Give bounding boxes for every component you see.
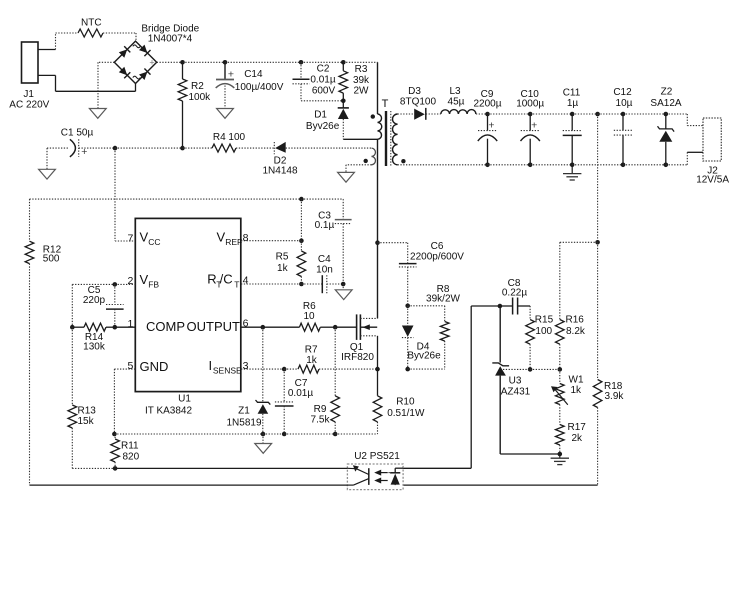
junction [113,466,118,471]
svg-text:R9: R9 [314,404,327,415]
pin 6 [243,318,249,330]
svg-text:AZ431: AZ431 [501,387,531,398]
ground [217,109,234,119]
wire [503,368,530,370]
svg-text:R11: R11 [121,440,139,451]
connector J2 [696,118,729,186]
junction [299,60,304,65]
wire [71,327,73,405]
svg-text:2k: 2k [572,433,584,444]
transformer T primary winding [378,98,389,139]
wire [488,113,531,115]
wire [403,467,471,469]
transformer auxiliary winding [372,148,376,165]
resistor R7 1k [284,345,377,374]
junction [485,163,490,168]
wire [559,405,561,425]
capacitor C10 1000u [516,89,544,165]
junction [223,60,228,65]
wire [597,114,599,242]
schottky diode Z1 1N5819 [226,400,270,434]
ground [89,109,106,119]
svg-text:0.01µ: 0.01µ [310,75,335,86]
pin label COMP [146,319,185,334]
resistor R15 100 [526,315,554,345]
pin 4 [243,275,249,287]
pin 5 [128,360,134,372]
inductor L3 45u [441,86,476,114]
svg-text:SA12A: SA12A [650,98,681,109]
wire [598,113,623,115]
svg-text:D1: D1 [314,110,327,121]
diode D2 1N4148 [262,142,297,177]
ground [255,434,272,453]
svg-text:5: 5 [128,360,134,372]
svg-text:U2 PS521: U2 PS521 [354,451,400,462]
wire [113,369,115,434]
capacitor C2 0.01u 600V [293,62,336,101]
junction [112,432,117,437]
svg-text:39k/2W: 39k/2W [426,294,460,305]
wire [335,433,377,435]
wire [71,284,73,327]
diode D4 Byv26e [402,306,441,369]
wire [403,484,597,486]
junction [621,163,626,168]
svg-text:8.2k: 8.2k [566,326,586,337]
wire pin5 stub [114,368,135,370]
svg-text:1k: 1k [277,263,289,274]
wire [115,147,183,149]
svg-text:2200µ: 2200µ [473,98,501,109]
svg-text:R2: R2 [191,81,204,92]
junction [113,282,118,287]
resistor R3 39k 2W [339,62,370,101]
svg-text:R13: R13 [78,405,97,416]
wire [530,164,572,166]
svg-text:IT KA3842: IT KA3842 [145,406,193,417]
wire pin7 stub [115,240,135,242]
wire [56,32,79,34]
svg-text:GND: GND [140,359,169,374]
wire [687,151,703,153]
junction [180,60,185,65]
wire [687,125,703,127]
svg-text:COMP: COMP [146,319,185,334]
resistor R5 1k [276,241,306,284]
svg-text:2W: 2W [354,86,370,97]
junction [528,163,533,168]
svg-text:T: T [234,279,239,289]
wire [376,317,378,319]
junction [595,112,600,117]
ground [338,172,355,182]
wire gate [335,326,356,328]
IC U1 IT KA3842 [135,218,241,416]
wire [114,433,263,435]
svg-text:1k: 1k [306,355,318,366]
svg-text:NTC: NTC [81,18,102,29]
wire [378,242,408,244]
pin label RT/CT [207,272,239,290]
junction [595,240,600,245]
wire [398,164,488,166]
wire [327,283,343,285]
junction [113,325,118,330]
resistor R10 0.51/1W [373,369,425,434]
svg-text:0.22µ: 0.22µ [502,288,527,299]
polarity dot [401,159,405,163]
svg-text:8: 8 [243,232,249,244]
resistor R9 7.5k [311,396,340,434]
svg-text:+: + [488,120,494,132]
svg-text:1: 1 [128,318,134,330]
svg-text:1k: 1k [571,385,583,396]
svg-text:Byv26e: Byv26e [306,121,340,132]
svg-text:AC 220V: AC 220V [9,100,49,111]
wire source [377,336,379,369]
svg-text:3: 3 [243,360,249,372]
pin label VREF [217,230,243,248]
wire [38,49,56,51]
wire [686,152,688,165]
wire [500,453,560,455]
pin label GND [140,359,169,374]
svg-text:600V: 600V [312,86,336,97]
svg-text:V: V [140,272,149,287]
wire [72,283,115,285]
svg-text:T: T [382,98,389,110]
capacitor C3 0.1u [315,199,352,284]
svg-text:10µ: 10µ [616,98,633,109]
capacitor C6 2200p/600V [399,241,464,306]
svg-text:1000µ: 1000µ [516,98,544,109]
capacitor C9 2200u [473,89,501,165]
svg-text:R15: R15 [535,315,554,326]
svg-text:130k: 130k [83,342,106,353]
drain line wire [377,139,379,318]
wire [343,138,377,140]
svg-text:220p: 220p [83,295,106,306]
svg-text:15k: 15k [78,416,95,427]
wire [46,148,48,169]
svg-text:Byv26e: Byv26e [407,351,441,362]
capacitor C7 0.01u [275,369,313,434]
transformer secondary winding [393,114,398,165]
wire [30,484,348,486]
svg-text:0.51/1W: 0.51/1W [387,408,425,419]
junction [375,240,380,245]
svg-text:1N5819: 1N5819 [226,417,261,428]
wire pin4 stub [241,283,301,285]
svg-text:1N4148: 1N4148 [262,166,297,177]
wire [572,113,597,115]
svg-text:V: V [140,230,149,245]
wire pin3 stub [241,368,284,370]
svg-text:+: + [149,58,154,68]
svg-text:100: 100 [535,326,552,337]
junction [282,367,287,372]
svg-text:Z2: Z2 [661,87,673,98]
svg-text:CC: CC [148,237,160,247]
wire [471,305,500,307]
wire pin1 stub [115,326,136,328]
svg-text:R17: R17 [568,422,587,433]
pin label VCC [140,230,161,248]
wire [572,164,623,166]
wire [345,165,347,173]
capacitor C5 220p [83,284,124,327]
pin 8 [243,232,249,244]
wire [135,33,137,41]
svg-text:1N4007*4: 1N4007*4 [148,33,193,44]
wire [597,408,599,486]
wire [686,114,688,126]
polarity dot [364,159,368,163]
wire [114,148,116,241]
wire [301,100,343,102]
wire [29,264,31,486]
svg-text:0.01µ: 0.01µ [288,388,313,399]
junction [299,282,304,287]
svg-text:R3: R3 [355,64,368,75]
wire [470,306,472,468]
junction [70,325,75,330]
wire pin8 stub [241,240,301,242]
transistor Q1 IRF820 [341,314,377,363]
wire [30,198,344,200]
wire [38,74,56,76]
resistor R11 820 [111,434,140,468]
svg-text:2200p/600V: 2200p/600V [410,252,464,263]
resistor R18 3.9k [593,380,624,408]
pin 1 [128,318,134,330]
junction [405,304,410,309]
wire [476,113,488,115]
wire [499,376,501,454]
svg-text:C1 50µ: C1 50µ [61,128,94,139]
junction [405,367,410,372]
svg-text:FB: FB [148,280,159,290]
wire [157,61,183,63]
resistor R6 10 [263,301,335,331]
junction [558,367,563,372]
capacitor C12 10u [613,87,632,165]
wire [426,113,441,115]
wire [488,164,531,166]
resistor R8 39k/2W [426,284,460,369]
wire [97,62,99,108]
wire [408,368,445,370]
potentiometer W1 1k [551,369,584,404]
wire [225,61,301,63]
wire [560,241,598,243]
wire [55,33,57,50]
junction [341,60,346,65]
capacitor C4 10n [316,254,333,293]
svg-text:4: 4 [243,275,249,287]
wire [183,147,213,149]
junction [282,432,287,437]
wire [559,344,561,369]
svg-text:R10: R10 [396,397,415,408]
svg-text:C14: C14 [244,69,263,80]
junction [570,163,575,168]
svg-text:R16: R16 [566,315,585,326]
pin 7 [128,232,134,244]
svg-text:100µ/400V: 100µ/400V [235,82,284,93]
svg-text:I: I [209,358,213,373]
wire [135,84,137,92]
junction [664,112,669,117]
wire pin2 stub [115,283,136,285]
wire [377,62,379,114]
svg-text:10: 10 [303,311,315,322]
wire [55,75,57,91]
resistor R16 8.2k [556,315,586,345]
junction [375,367,380,372]
svg-text:R5: R5 [276,252,289,263]
junction [664,163,669,168]
svg-text:45µ: 45µ [448,96,465,107]
svg-text:1µ: 1µ [567,98,579,109]
junction [261,325,266,330]
ground [335,284,352,300]
earth ground [551,454,569,465]
wire [301,61,343,63]
wire [395,467,403,469]
svg-text:7.5k: 7.5k [311,415,331,426]
junction [299,238,304,243]
svg-text:V: V [217,230,226,245]
junction [180,146,185,151]
svg-text:REF: REF [225,237,242,247]
capacitor C1 50u [47,128,93,159]
junction [261,432,266,437]
svg-text:SENSE: SENSE [213,366,242,376]
wire [499,306,501,363]
pin label VFB [140,272,160,290]
pin label OUTPUT [187,319,241,334]
junction [341,282,346,287]
wire [666,113,688,115]
junction [299,197,304,202]
svg-text:R4 100: R4 100 [213,132,246,143]
svg-text:0.1µ: 0.1µ [315,220,335,231]
junction [113,146,118,151]
pin 2 [128,275,134,287]
junction [570,112,575,117]
wire [530,113,572,115]
wire [623,113,666,115]
wire [529,344,531,369]
polarity dot [371,114,375,118]
junction [333,325,338,330]
wire [398,113,415,115]
wire [72,467,115,469]
wire [79,147,115,149]
pin label ISENSE [209,358,243,376]
wire [300,199,302,241]
svg-text:3.9k: 3.9k [605,391,625,402]
pin 3 [243,360,249,372]
wire [263,433,284,435]
wire [623,164,666,166]
svg-text:W1: W1 [569,375,584,386]
wire [559,445,561,454]
resistor R14 130k [72,323,115,352]
svg-text:7: 7 [128,232,134,244]
svg-text:500: 500 [43,253,60,264]
resistor R2 100k [178,62,211,148]
wire [346,164,372,166]
shunt regulator U3 AZ431 [492,363,530,398]
wire [284,433,335,435]
wire [343,61,377,63]
svg-text:/C: /C [220,272,233,287]
wire [71,428,73,468]
svg-text:+: + [228,69,234,81]
wire [115,467,347,469]
wire [98,61,114,63]
junction [485,112,490,117]
wire [301,283,322,285]
svg-text:IRF820: IRF820 [341,352,374,363]
thermistor NTC [78,18,103,37]
wire [286,147,372,149]
connector J1 [9,42,49,111]
svg-text:100k: 100k [189,92,212,103]
wire [29,199,31,241]
svg-text:C4: C4 [318,254,331,265]
junction [621,112,626,117]
earth ground [563,165,581,180]
svg-text:Z1: Z1 [238,406,250,417]
svg-text:2: 2 [128,275,134,287]
svg-text:8TQ100: 8TQ100 [400,96,437,107]
wire [262,327,264,402]
junction [528,112,533,117]
svg-text:C6: C6 [431,241,444,252]
wire [56,90,136,92]
junction [333,432,338,437]
svg-text:10n: 10n [316,265,333,276]
transformer core [386,111,391,166]
ground [39,169,56,179]
wire [236,147,274,149]
wire [183,61,226,63]
wire [530,368,560,370]
capacitor C14 100u/400V [216,62,284,108]
junction [498,304,503,309]
TVS diode Z2 SA12A [650,87,681,165]
wire [666,164,688,166]
junction [558,452,563,457]
wire [103,32,136,34]
svg-text:820: 820 [123,452,140,463]
wire [408,305,445,307]
wire [334,327,336,396]
svg-text:C2: C2 [317,64,330,75]
svg-text:J1: J1 [23,89,34,100]
wire [559,242,561,319]
junction [341,99,346,104]
wire [529,306,531,320]
svg-text:U3: U3 [509,376,522,387]
bridge rectifier Bridge Diode 1N4007*4 [114,24,199,84]
svg-text:12V/5A: 12V/5A [696,175,729,186]
svg-text:OUTPUT: OUTPUT [187,319,241,334]
